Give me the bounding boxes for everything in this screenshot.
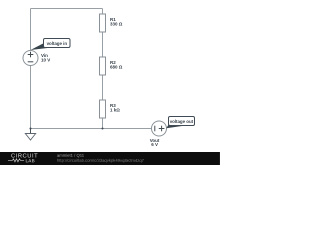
wire R1 to R2 xyxy=(101,32,103,57)
wire R2 to R3 xyxy=(101,75,103,100)
label Vin 10 V xyxy=(41,53,50,62)
svg-text:voltage out: voltage out xyxy=(170,119,194,124)
V2 minus sign rotated xyxy=(154,126,156,132)
svg-text:voltage in: voltage in xyxy=(47,41,68,46)
wire left vertical upper xyxy=(29,9,31,51)
V1 minus sign xyxy=(28,61,34,63)
junction R3 bottom xyxy=(101,127,103,129)
V1 plus sign xyxy=(28,52,34,58)
footer logo zigzag xyxy=(8,159,24,162)
label Vout 6 V xyxy=(150,138,160,147)
svg-text:680 Ω: 680 Ω xyxy=(110,65,123,70)
svg-text:10 V: 10 V xyxy=(41,57,50,62)
flag voltage in pointer xyxy=(30,44,50,50)
V2 plus sign xyxy=(159,126,165,132)
voltage source V2 Vout circle xyxy=(151,121,166,136)
wire ground stub xyxy=(29,129,31,134)
label R1 330 ohm xyxy=(110,17,123,26)
resistor R3 xyxy=(99,100,105,118)
wire top horizontal xyxy=(30,8,102,10)
label R2 680 ohm xyxy=(110,60,123,69)
wire right vertical to R1 xyxy=(101,9,103,14)
svg-text:6 V: 6 V xyxy=(151,142,158,147)
ground symbol xyxy=(25,134,35,141)
svg-text:330 Ω: 330 Ω xyxy=(110,22,123,27)
flag voltage in box xyxy=(43,39,70,48)
svg-text:1 kΩ: 1 kΩ xyxy=(110,108,120,113)
voltage source V1 Vin circle xyxy=(23,51,38,66)
junction ground node xyxy=(29,127,31,129)
wire left vertical lower xyxy=(29,66,31,129)
resistor R2 xyxy=(99,57,105,75)
resistor R1 xyxy=(99,14,105,32)
wire bottom bus xyxy=(30,128,151,130)
footer bar xyxy=(0,152,220,165)
svg-text:http://circuitlab.com/c/33aqvk: http://circuitlab.com/c/33aqvkpk49vq8e2m… xyxy=(57,158,145,163)
wire R3 to bottom bus xyxy=(101,118,103,128)
label R3 1 kohm xyxy=(110,103,120,112)
svg-text:LAB: LAB xyxy=(25,158,35,163)
flag voltage out box xyxy=(168,117,194,126)
flag voltage out pointer xyxy=(166,122,184,128)
